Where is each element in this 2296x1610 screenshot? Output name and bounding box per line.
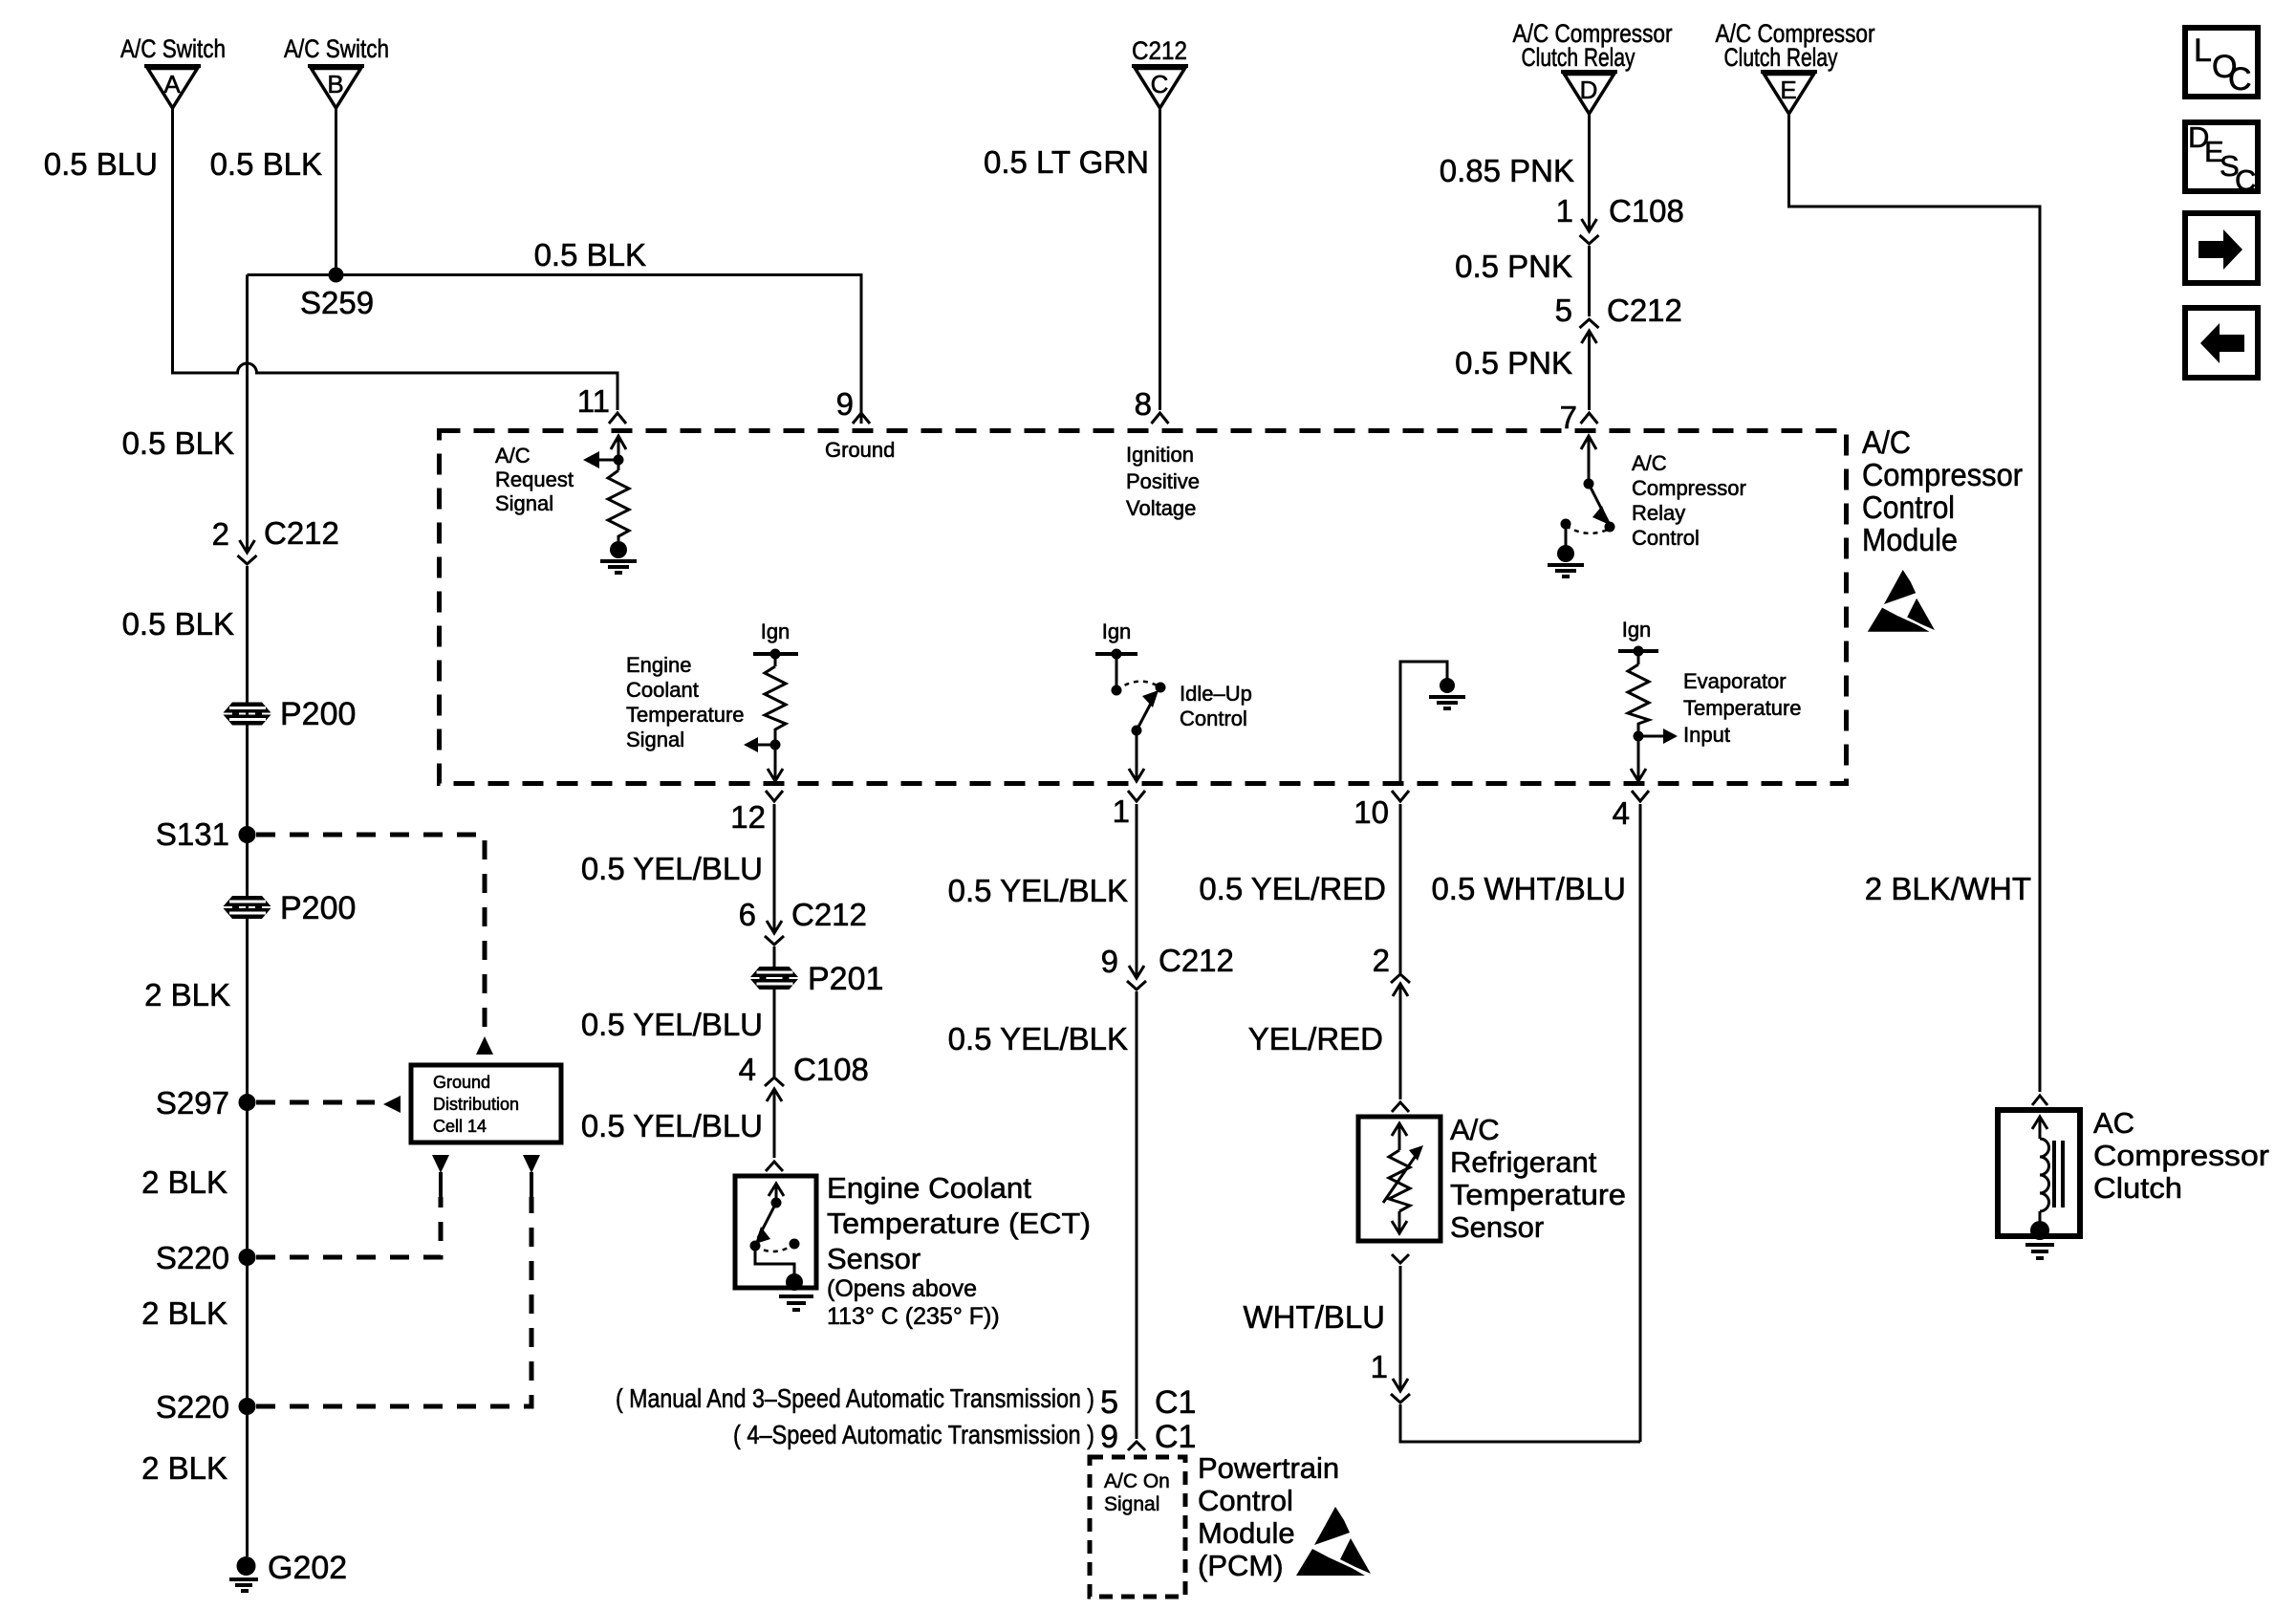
connector D (A/C Compressor Clutch Relay) (1513, 19, 1673, 114)
refrigerant sensor thermistor (1383, 1123, 1423, 1233)
svg-text:C: C (2228, 61, 2252, 98)
wire pin 1 to C212 (0.5 YEL/BLK) (1136, 804, 1138, 978)
svg-text:0.5 BLK: 0.5 BLK (122, 425, 234, 461)
ECT sensor internal switch (750, 1184, 804, 1291)
svg-text:C108: C108 (793, 1052, 869, 1087)
Idle-Up Control switch (internal) (1095, 620, 1252, 781)
pin 11 chevron (609, 413, 626, 424)
svg-text:0.5 LT GRN: 0.5 LT GRN (984, 144, 1149, 180)
svg-text:2 BLK: 2 BLK (144, 977, 230, 1012)
PCM pin chevron (1128, 1442, 1145, 1450)
wire E to AC compressor clutch (2 BLK/WHT) (1789, 114, 2041, 1092)
svg-text:2 BLK: 2 BLK (141, 1164, 227, 1200)
svg-text:1: 1 (1371, 1349, 1388, 1384)
AC clutch labels (2093, 1106, 2269, 1205)
svg-text:C: C (1151, 70, 1169, 98)
AC clutch ground (2025, 1245, 2054, 1258)
svg-text:Control: Control (1862, 490, 1955, 525)
svg-text:Idle–Up: Idle–Up (1180, 682, 1252, 706)
arrow below box (S220 lower branch) (523, 1155, 540, 1197)
dashed branch S131 to Ground Distribution box (256, 835, 485, 1033)
grommet P200 (lower) (224, 890, 357, 926)
svg-text:P200: P200 (280, 890, 356, 926)
svg-text:S220: S220 (156, 1389, 229, 1425)
svg-text:0.5 YEL/BLK: 0.5 YEL/BLK (948, 1021, 1128, 1056)
connector 6 C212 (739, 897, 867, 945)
svg-text:C1: C1 (1155, 1419, 1196, 1455)
svg-text:C212: C212 (791, 897, 867, 932)
arrow into box (S297 branch) (383, 1096, 401, 1113)
Ground Distribution Cell 14 box (411, 1065, 561, 1142)
svg-text:9: 9 (1101, 944, 1118, 979)
arrow into box (S131 branch) (476, 1036, 493, 1055)
wire S259 to pin 9 (0.5 BLK) (248, 275, 862, 424)
svg-text:( 4–Speed Automatic Transmissi: ( 4–Speed Automatic Transmission ) (733, 1420, 1094, 1449)
Evaporator Temperature Input block (internal Ign resistor) (1618, 618, 1802, 781)
svg-text:0.5 PNK: 0.5 PNK (1455, 249, 1572, 284)
wire C212 to pin 7 (0.5 PNK) (1588, 331, 1591, 410)
wire rail below C212 (246, 566, 249, 1556)
svg-text:1: 1 (1113, 794, 1130, 829)
svg-text:Request: Request (495, 468, 574, 491)
svg-text:Signal: Signal (1104, 1493, 1159, 1515)
svg-text:B: B (327, 70, 343, 98)
ground G202 (229, 1550, 347, 1591)
svg-text:(PCM): (PCM) (1198, 1549, 1284, 1582)
A/C Request Signal block (internal resistor to ground) (495, 436, 637, 573)
wire pin 4 down (0.5 WHT/BLU) (1639, 804, 1642, 1442)
svg-text:C1: C1 (1155, 1384, 1196, 1421)
svg-text:9: 9 (1100, 1419, 1118, 1455)
ECT sensor labels (827, 1171, 1091, 1330)
svg-text:0.5 YEL/BLU: 0.5 YEL/BLU (581, 1108, 763, 1143)
svg-text:Compressor: Compressor (1632, 476, 1746, 500)
svg-text:A/C On: A/C On (1104, 1470, 1170, 1492)
svg-text:Module: Module (1862, 522, 1958, 557)
svg-text:Control: Control (1180, 707, 1247, 730)
pin 7 chevron (1581, 413, 1598, 424)
connector 4 C108 (739, 1052, 869, 1101)
svg-text:Engine: Engine (626, 653, 692, 677)
wire sensor to connector 1 (WHT/BLU) (1399, 1266, 1402, 1388)
wire C212 to PCM (0.5 YEL/BLK) (1136, 991, 1138, 1439)
svg-text:C212: C212 (264, 515, 339, 551)
svg-text:Temperature: Temperature (626, 703, 745, 727)
svg-text:(Opens above: (Opens above (827, 1275, 977, 1302)
svg-text:Evaporator: Evaporator (1683, 669, 1787, 693)
legend DESC box (2185, 120, 2258, 197)
svg-text:Engine Coolant: Engine Coolant (827, 1171, 1031, 1205)
AC clutch coil (2030, 1117, 2063, 1240)
svg-text:Relay: Relay (1632, 501, 1685, 525)
svg-text:0.5 PNK: 0.5 PNK (1455, 345, 1572, 381)
svg-text:113° C (235° F)): 113° C (235° F)) (827, 1303, 1000, 1330)
svg-text:2: 2 (1373, 943, 1390, 978)
svg-text:D: D (1580, 76, 1598, 104)
AC clutch pin chevron (2032, 1096, 2047, 1105)
ECT sensor ground (779, 1296, 813, 1310)
dashed branch S220 lower to box (256, 1197, 531, 1406)
svg-text:5: 5 (1555, 293, 1572, 328)
wire P201 to C108 (0.5 YEL/BLU) (773, 990, 776, 1077)
svg-text:0.5 BLK: 0.5 BLK (122, 606, 234, 642)
svg-text:C108: C108 (1609, 193, 1684, 228)
svg-text:8: 8 (1135, 386, 1152, 422)
svg-text:P201: P201 (808, 961, 883, 997)
wire C108 to ECT sensor (0.5 YEL/BLU) (773, 1089, 776, 1158)
svg-text:Control: Control (1198, 1484, 1293, 1517)
svg-text:5: 5 (1100, 1384, 1118, 1421)
svg-text:Module: Module (1198, 1516, 1295, 1550)
transmission variant labels (616, 1383, 1196, 1455)
svg-text:0.5 BLK: 0.5 BLK (534, 237, 646, 272)
svg-text:S297: S297 (156, 1085, 229, 1120)
svg-text:Voltage: Voltage (1126, 496, 1196, 520)
wire pin 10 to connector 2 (0.5 YEL/RED) (1399, 804, 1402, 973)
PCM labels (1198, 1451, 1339, 1582)
svg-text:Ign: Ign (1622, 618, 1652, 642)
AC Compressor Clutch box (1998, 1110, 2080, 1236)
svg-text:7: 7 (1560, 400, 1577, 435)
svg-text:YEL/RED: YEL/RED (1248, 1021, 1383, 1056)
svg-text:0.5 YEL/RED: 0.5 YEL/RED (1199, 871, 1386, 906)
wire pin 12 to C212 (0.5 YEL/BLU) (773, 804, 776, 933)
svg-text:C212: C212 (1132, 36, 1187, 65)
svg-text:0.5 YEL/BLU: 0.5 YEL/BLU (581, 851, 763, 886)
svg-text:2 BLK: 2 BLK (141, 1450, 227, 1486)
connector C (C212) (1132, 36, 1188, 108)
svg-text:Powertrain: Powertrain (1198, 1451, 1339, 1485)
connector 2 (1373, 943, 1410, 996)
svg-text:0.5 BLK: 0.5 BLK (210, 146, 322, 182)
svg-text:12: 12 (730, 799, 766, 835)
pin 12 chevron (766, 791, 783, 801)
svg-text:Clutch: Clutch (2093, 1171, 2182, 1205)
pin 10 chevron (1392, 791, 1409, 801)
svg-text:Sensor: Sensor (827, 1242, 921, 1275)
svg-text:0.5 YEL/BLK: 0.5 YEL/BLK (948, 873, 1128, 908)
svg-text:1: 1 (1556, 193, 1573, 228)
splice S259 (329, 268, 344, 283)
splice S220 (upper) (239, 1249, 256, 1266)
pin 1 chevron (1128, 791, 1145, 801)
svg-text:P200: P200 (280, 696, 356, 732)
svg-text:Control: Control (1632, 526, 1700, 550)
wire C to pin 8 (0.5 LT GRN) (1159, 108, 1161, 410)
svg-text:Positive: Positive (1126, 469, 1200, 493)
svg-text:Signal: Signal (626, 728, 684, 751)
module title A/C Compressor Control Module (1862, 424, 2023, 557)
svg-text:Refrigerant: Refrigerant (1450, 1145, 1597, 1179)
legend LOC box (2185, 28, 2258, 98)
svg-text:11: 11 (577, 383, 610, 419)
wire C108 to C212 (0.5 PNK) (1588, 246, 1591, 316)
svg-text:Ign: Ign (1102, 620, 1132, 643)
connector 9 C212 (1101, 943, 1234, 990)
svg-text:C212: C212 (1159, 943, 1234, 978)
refrigerant sensor pin chevron (1392, 1102, 1409, 1112)
wire C212 to P201 (773, 946, 776, 968)
Engine Coolant Temperature (ECT) Sensor box (735, 1176, 816, 1288)
wire connector 1 joining pin 4 wire (1400, 1404, 1640, 1442)
svg-text:0.85 PNK: 0.85 PNK (1440, 153, 1574, 188)
connector 5 C212 (1555, 293, 1682, 343)
grommet P200 (upper) (224, 696, 357, 732)
svg-text:S259: S259 (300, 285, 374, 320)
svg-text:Sensor: Sensor (1450, 1210, 1544, 1244)
connector A (A/C Switch) (120, 34, 226, 108)
svg-text:S220: S220 (156, 1240, 229, 1275)
svg-text:Signal: Signal (495, 491, 553, 515)
wire B to splice S259 (335, 108, 337, 275)
ESD symbol (PCM) (1296, 1507, 1371, 1576)
svg-text:AC: AC (2093, 1106, 2134, 1140)
splice S297 (239, 1094, 256, 1111)
wire connector 2 to refrigerant sensor (YEL/RED) (1399, 984, 1402, 1099)
chevron below refrigerant sensor (1392, 1254, 1409, 1263)
svg-text:A/C Switch: A/C Switch (284, 34, 389, 63)
A/C Refrigerant Temperature Sensor box (1358, 1117, 1440, 1241)
svg-text:Ground: Ground (825, 438, 895, 462)
connector E (A/C Compressor Clutch Relay) (1716, 19, 1875, 114)
svg-text:Temperature (ECT): Temperature (ECT) (827, 1207, 1091, 1240)
svg-text:Compressor: Compressor (2093, 1139, 2269, 1172)
svg-text:A/C: A/C (1632, 451, 1667, 475)
grommet P201 (750, 961, 883, 997)
svg-text:( Manual And 3–Speed Automatic: ( Manual And 3–Speed Automatic Transmiss… (616, 1383, 1094, 1413)
svg-text:A: A (163, 70, 181, 98)
Powertrain Control Module dashed box (A/C On Signal) (1090, 1457, 1185, 1597)
arrow below box (S220 upper branch) (432, 1155, 449, 1197)
wire A to pin 11 (0.5 BLU / 0.5 BLK with hop over rail) (173, 108, 618, 410)
pin 9 chevron (853, 413, 870, 424)
dashed branch S297 to Ground Distribution box (256, 1100, 375, 1105)
A/C Compressor Control Module dashed box (440, 431, 1847, 784)
connector B (A/C Switch) (284, 34, 389, 108)
svg-text:9: 9 (836, 386, 854, 422)
svg-text:Clutch Relay: Clutch Relay (1724, 43, 1838, 72)
svg-text:S131: S131 (156, 816, 229, 852)
svg-text:L: L (2194, 33, 2212, 69)
svg-text:2: 2 (212, 516, 229, 552)
svg-text:A/C: A/C (495, 444, 531, 468)
svg-text:10: 10 (1354, 794, 1389, 830)
svg-text:Input: Input (1683, 723, 1730, 747)
A/C Compressor Relay Control switch (internal) (1548, 436, 1746, 577)
connector 2 C212 on rail (212, 515, 339, 564)
internal ground (pin 10) (1400, 662, 1465, 782)
svg-text:4: 4 (1613, 795, 1630, 831)
legend left-arrow box (2185, 308, 2258, 378)
svg-text:0.5 YEL/BLU: 0.5 YEL/BLU (581, 1007, 763, 1042)
svg-text:Compressor: Compressor (1862, 457, 2023, 492)
svg-text:Ground: Ground (433, 1073, 490, 1092)
refrigerant sensor labels (1450, 1113, 1626, 1244)
Ignition Positive Voltage label (pin 8) (1126, 443, 1200, 520)
ESD symbol (module) (1868, 570, 1935, 632)
svg-text:A/C: A/C (1450, 1113, 1500, 1146)
svg-text:Distribution: Distribution (433, 1095, 519, 1114)
svg-text:A/C: A/C (1862, 424, 1911, 460)
svg-text:Temperature: Temperature (1683, 696, 1802, 720)
connector 1 C108 (1556, 193, 1684, 244)
pin 8 chevron (1152, 413, 1169, 424)
splice S131 (239, 826, 256, 843)
svg-text:C212: C212 (1607, 293, 1682, 328)
pin 4 chevron (1632, 791, 1649, 801)
connector 1 (1371, 1349, 1410, 1403)
splice S220 (lower) (239, 1398, 256, 1415)
wire D to C108 (0.85 PNK) (1588, 114, 1591, 231)
svg-text:Temperature: Temperature (1450, 1178, 1626, 1211)
svg-text:C: C (2235, 163, 2256, 197)
svg-text:WHT/BLU: WHT/BLU (1244, 1299, 1386, 1335)
svg-text:2 BLK/WHT: 2 BLK/WHT (1865, 871, 2031, 906)
svg-text:2 BLK: 2 BLK (141, 1295, 227, 1331)
svg-text:Clutch Relay: Clutch Relay (1522, 43, 1635, 72)
svg-text:Ign: Ign (761, 620, 791, 643)
svg-text:A/C Switch: A/C Switch (120, 34, 226, 63)
legend right-arrow box (2185, 213, 2258, 283)
svg-text:E: E (1780, 76, 1796, 104)
ground rail wire (S259 corner down to G202) (246, 275, 249, 553)
svg-text:6: 6 (739, 897, 756, 932)
svg-text:Coolant: Coolant (626, 678, 699, 702)
Engine Coolant Temperature Signal block (internal Ign resistor) (626, 620, 798, 781)
svg-text:0.5 WHT/BLU: 0.5 WHT/BLU (1431, 871, 1626, 906)
svg-text:4: 4 (739, 1052, 756, 1087)
ECT sensor pin chevron (766, 1162, 783, 1171)
svg-text:Ignition: Ignition (1126, 443, 1194, 467)
svg-text:G202: G202 (268, 1550, 347, 1586)
dashed branch S220 upper to box (256, 1197, 441, 1257)
svg-text:0.5 BLU: 0.5 BLU (44, 146, 158, 182)
svg-text:Cell 14: Cell 14 (433, 1117, 487, 1136)
